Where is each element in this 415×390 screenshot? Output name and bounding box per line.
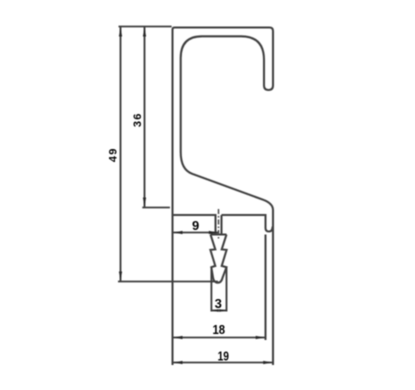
dim 49 ext (bottom, at spike tip) bbox=[118, 281, 218, 283]
barbed spike bbox=[210, 235, 226, 283]
profile outline: left wall, top edge, hook finger, inner cavity, diagonal, right wall bbox=[173, 28, 274, 366]
dim 18 line bbox=[173, 337, 266, 339]
svg-text:19: 19 bbox=[218, 349, 229, 364]
svg-text:3: 3 bbox=[215, 296, 222, 311]
svg-text:36: 36 bbox=[132, 112, 144, 127]
dim 19 line bbox=[173, 362, 274, 364]
band top edge right of slot with J-curl groove bbox=[222, 215, 273, 235]
svg-text:9: 9 bbox=[192, 218, 199, 233]
dim 3 ext lines bbox=[211, 268, 226, 312]
band top edge left of slot bbox=[173, 215, 216, 235]
spike centerline bbox=[218, 209, 220, 240]
svg-text:49: 49 bbox=[108, 147, 120, 162]
dim 49 line bbox=[120, 27, 122, 282]
dim 9 line bbox=[173, 232, 219, 234]
inner right wall lower (18 ref) bbox=[264, 235, 266, 341]
dim 36 ext bbox=[142, 207, 170, 209]
top extension line bbox=[119, 26, 172, 28]
dim 3 line bbox=[211, 310, 226, 312]
svg-text:18: 18 bbox=[213, 322, 226, 337]
dim 36 line bbox=[144, 27, 146, 208]
